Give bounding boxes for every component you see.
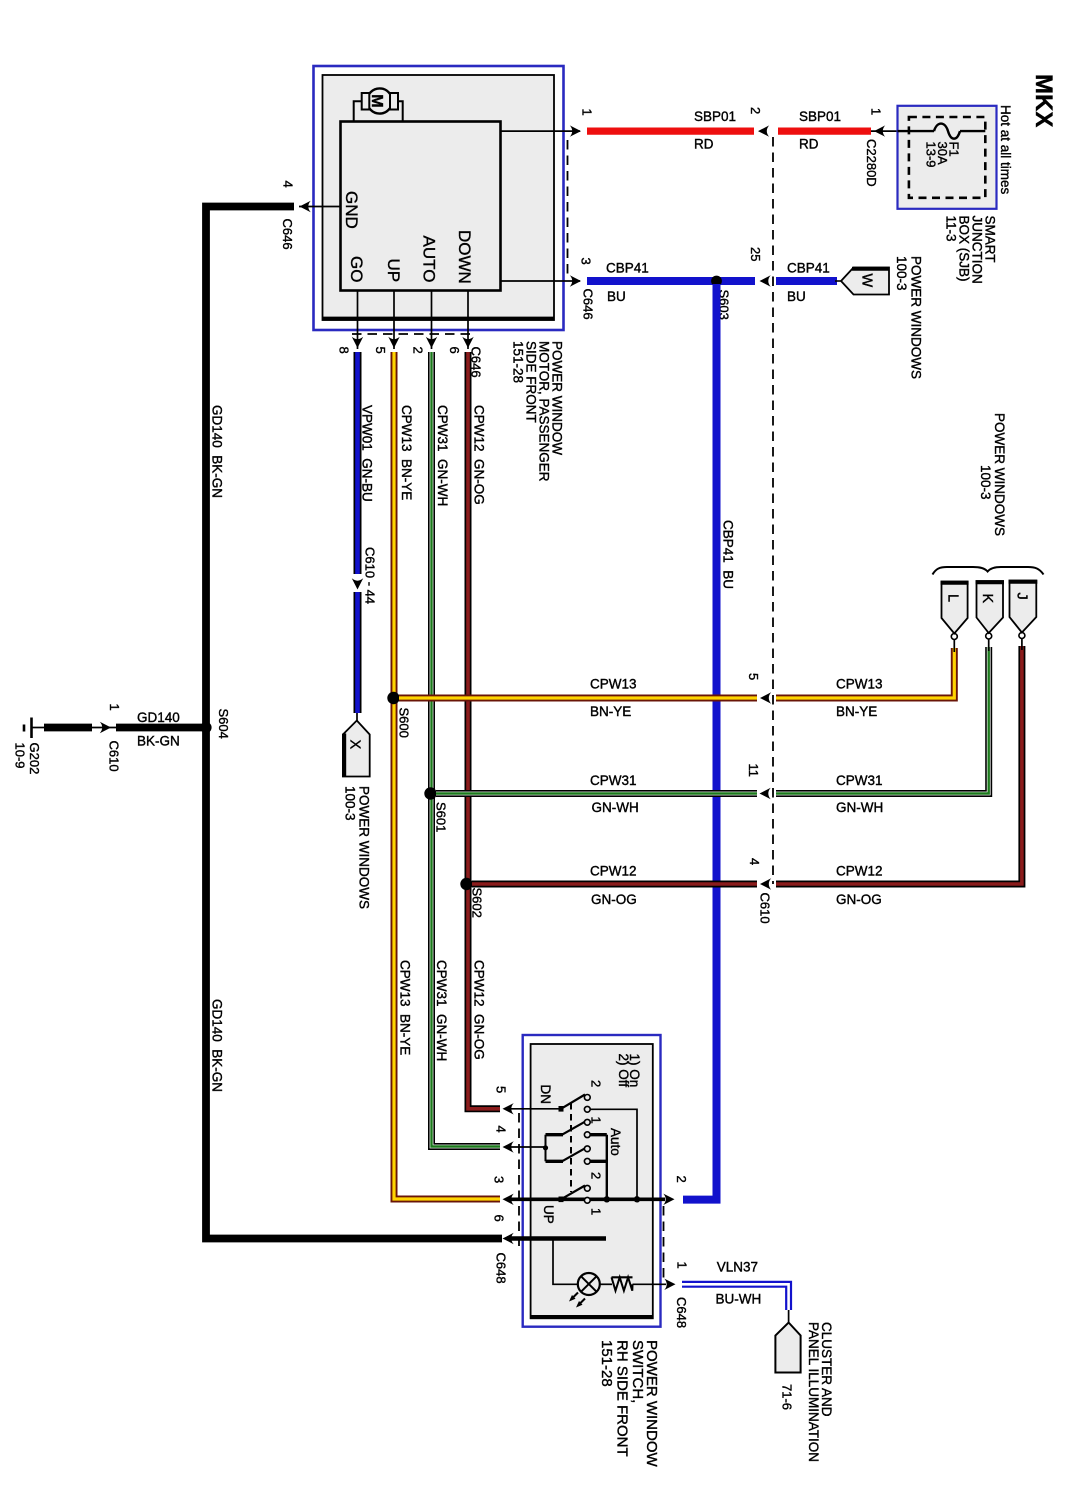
arrow pin 11 (C610) xyxy=(760,788,771,799)
auto bus vertical xyxy=(606,1135,608,1200)
pin6 internal line xyxy=(507,1236,606,1241)
svg-text:C648: C648 xyxy=(674,1297,689,1328)
switch box outer blue xyxy=(523,1035,661,1327)
wire CPW13 BN-YE vertical run xyxy=(394,352,500,1199)
svg-text:CPW31 GN-WH: CPW31 GN-WH xyxy=(435,405,450,506)
svg-text:100-3: 100-3 xyxy=(978,465,993,500)
lamp rays xyxy=(571,1293,578,1300)
switch pin 6 arrow xyxy=(503,1233,514,1244)
svg-text:5: 5 xyxy=(494,1086,509,1093)
svg-text:C2280D: C2280D xyxy=(864,139,879,187)
mechanical linkage dashed xyxy=(570,1103,572,1192)
svg-text:POWER WINDOWS: POWER WINDOWS xyxy=(357,786,372,909)
svg-text:13-9: 13-9 xyxy=(924,142,939,168)
svg-text:CBP41: CBP41 xyxy=(606,261,649,276)
svg-text:CBP41: CBP41 xyxy=(787,261,830,276)
svg-text:GO: GO xyxy=(347,256,366,282)
illumination lamp xyxy=(578,1273,600,1295)
svg-text:4: 4 xyxy=(494,1126,509,1133)
motor symbol M xyxy=(367,88,392,113)
svg-text:CPW12 GN-OG: CPW12 GN-OG xyxy=(472,960,487,1060)
motor U1: power window motor passenger side front - outer blue box xyxy=(314,66,564,330)
wire CBP41 BU segment 1 xyxy=(587,277,755,285)
svg-text:GD140 BK-GN: GD140 BK-GN xyxy=(210,405,225,498)
svg-text:RD: RD xyxy=(694,137,714,152)
svg-text:SBP01: SBP01 xyxy=(694,109,736,124)
wire: GND pin4 lead xyxy=(299,206,341,208)
svg-text:L: L xyxy=(945,594,961,602)
switch pin 3 arrow xyxy=(503,1194,514,1205)
svg-text:MKX: MKX xyxy=(1030,74,1057,127)
svg-text:CPW13 BN-YE: CPW13 BN-YE xyxy=(398,960,413,1055)
connector dashed boundary C2280D / C610 xyxy=(772,137,774,884)
svg-text:S601: S601 xyxy=(434,802,449,832)
svg-text:GD140: GD140 xyxy=(137,710,180,725)
connector flag K lead xyxy=(986,633,992,639)
svg-text:UP: UP xyxy=(384,259,403,283)
ground branch wire GD140 xyxy=(116,724,206,732)
svg-text:G202: G202 xyxy=(27,743,42,775)
connector C648 dashed boundary (left) xyxy=(518,1113,520,1246)
svg-text:151-28: 151-28 xyxy=(598,1340,615,1387)
illumination resistor xyxy=(612,1276,633,1278)
svg-text:CPW13: CPW13 xyxy=(590,677,637,692)
wire CBP41 BU segment 2 xyxy=(776,277,837,285)
svg-text:S604: S604 xyxy=(216,709,231,739)
auto lower contacts xyxy=(584,1146,590,1152)
motor pin 2 lead xyxy=(431,291,433,350)
wire CPW31 GN-WH vertical run xyxy=(432,352,501,1147)
motor pin 3 lead xyxy=(501,280,581,282)
svg-text:1: 1 xyxy=(675,1262,690,1269)
svg-text:GN-OG: GN-OG xyxy=(591,892,637,907)
switch main output line xyxy=(507,1198,665,1202)
switch pin 4 arrow xyxy=(503,1141,514,1152)
svg-text:POWER WINDOWS: POWER WINDOWS xyxy=(909,256,924,379)
wire SBP01 RD segment 2 xyxy=(778,128,871,135)
svg-text:11: 11 xyxy=(746,764,761,778)
svg-text:CPW12: CPW12 xyxy=(590,864,637,879)
svg-text:GN-WH: GN-WH xyxy=(592,800,639,815)
svg-text:SBP01: SBP01 xyxy=(799,109,841,124)
svg-text:151-28: 151-28 xyxy=(511,341,526,383)
svg-text:M: M xyxy=(368,94,385,107)
arrow pin 25 xyxy=(760,275,771,286)
switch internal: pin4 line xyxy=(507,1146,546,1148)
svg-text:C646: C646 xyxy=(280,219,295,250)
wire VLN37 BU-WH xyxy=(682,1284,789,1310)
svg-text:C610: C610 xyxy=(107,741,122,772)
brace over connectors xyxy=(933,567,1044,575)
svg-text:CBP41 BU: CBP41 BU xyxy=(721,520,736,589)
svg-text:5: 5 xyxy=(746,673,761,680)
connector flag W xyxy=(835,280,842,282)
svg-text:6: 6 xyxy=(492,1215,507,1222)
wire VPW01 GN-BU segment 2 xyxy=(354,592,362,713)
svg-text:11-3: 11-3 xyxy=(944,216,959,242)
switch internal: pin5 line to DN switch xyxy=(507,1108,562,1110)
svg-text:Hot at all times: Hot at all times xyxy=(998,105,1013,195)
svg-text:100-3: 100-3 xyxy=(894,256,909,291)
motor lead wires xyxy=(354,101,362,122)
svg-text:SWITCH,: SWITCH, xyxy=(629,1340,646,1403)
svg-text:4: 4 xyxy=(281,181,296,188)
switch box inner grey xyxy=(531,1044,653,1318)
connector C648 dashed boundary (right) xyxy=(663,1206,665,1280)
wire CPW13 BN-YE horizontal run (left) xyxy=(399,695,757,702)
resistor to pin1 line xyxy=(633,1283,667,1285)
lamp to resistor line xyxy=(600,1283,612,1285)
svg-text:1: 1 xyxy=(589,1208,604,1215)
svg-text:2: 2 xyxy=(589,1080,604,1087)
svg-text:3: 3 xyxy=(492,1176,507,1183)
splice S602 xyxy=(460,878,472,890)
svg-text:CPW12 GN-OG: CPW12 GN-OG xyxy=(472,405,487,505)
connector C646 dashed boundary (bottom of motor) xyxy=(352,333,472,335)
connector flag K xyxy=(977,581,1004,633)
splice S600 xyxy=(387,692,399,704)
wire CPW12 GN-OG vertical run xyxy=(468,352,500,1109)
svg-text:C646: C646 xyxy=(581,289,596,320)
svg-text:2: 2 xyxy=(411,347,426,354)
svg-text:K: K xyxy=(979,594,995,604)
motor pin 5 lead xyxy=(393,291,395,350)
pin 3 arrow (C646) xyxy=(570,275,581,286)
svg-text:PANEL ILLUMINATION: PANEL ILLUMINATION xyxy=(806,1322,821,1462)
svg-text:BU: BU xyxy=(787,289,806,304)
svg-text:CPW12: CPW12 xyxy=(836,864,883,879)
svg-text:10-9: 10-9 xyxy=(13,743,28,769)
svg-text:S600: S600 xyxy=(397,708,412,738)
UP contacts xyxy=(584,1185,590,1191)
pin 1 arrow (C646) xyxy=(570,125,581,136)
connector flag cluster xyxy=(775,1323,800,1373)
svg-text:POWER WINDOWS: POWER WINDOWS xyxy=(992,413,1007,536)
svg-text:W: W xyxy=(859,274,875,288)
svg-text:Auto: Auto xyxy=(608,1128,623,1156)
svg-text:6: 6 xyxy=(447,347,462,354)
svg-text:C610: C610 xyxy=(758,893,773,924)
svg-text:GN-OG: GN-OG xyxy=(836,892,882,907)
inline connector C610-44 arrow xyxy=(352,578,363,589)
svg-text:71-6: 71-6 xyxy=(780,1384,795,1410)
svg-text:J: J xyxy=(1013,593,1029,600)
auto upper contacts xyxy=(584,1119,590,1125)
UP switch pole xyxy=(559,1197,564,1203)
wire GD140 BK-GN thick ground wire xyxy=(206,207,502,1239)
svg-text:C648: C648 xyxy=(494,1253,509,1284)
svg-text:BK-GN: BK-GN xyxy=(137,734,180,749)
connector flag L lead xyxy=(951,634,957,640)
svg-text:S602: S602 xyxy=(470,888,485,918)
motor pin 1 lead xyxy=(501,130,581,132)
wire VPW01 GN-BU segment 1 xyxy=(354,352,362,574)
splice S604 xyxy=(200,722,211,733)
pin 2 arrow (right) xyxy=(663,1194,674,1205)
svg-text:3: 3 xyxy=(579,258,594,265)
svg-text:C610 - 44: C610 - 44 xyxy=(363,547,378,604)
connector flag J lead xyxy=(1019,633,1025,639)
arrow pin 5 (C610) xyxy=(760,692,771,703)
lamp feed line xyxy=(553,1239,578,1285)
motor U1 inner grey housing xyxy=(323,75,555,320)
wire SBP01 RD segment 1 xyxy=(587,128,754,135)
svg-text:2: 2 xyxy=(589,1172,604,1179)
switch DN lever xyxy=(561,1095,585,1109)
fuse box dashed outline xyxy=(909,117,985,198)
splice S601 xyxy=(424,787,436,799)
DN contact 2 xyxy=(584,1095,590,1101)
svg-text:5: 5 xyxy=(373,347,388,354)
DN contact 1 wire to bus xyxy=(591,1109,638,1199)
svg-text:UP: UP xyxy=(541,1205,556,1224)
svg-text:GD140 BK-GN: GD140 BK-GN xyxy=(210,999,225,1092)
svg-text:CPW31: CPW31 xyxy=(836,773,883,788)
ground branch arrow pin 1 C610 xyxy=(100,722,111,733)
svg-text:100-3: 100-3 xyxy=(343,786,358,821)
svg-text:GN-WH: GN-WH xyxy=(836,800,883,815)
motor U1 main component box xyxy=(341,122,501,291)
connector flag L xyxy=(942,582,968,634)
svg-text:25: 25 xyxy=(748,247,763,261)
pin 4 arrow xyxy=(300,201,311,212)
svg-text:GND: GND xyxy=(342,191,361,229)
wire CPW31 GN-WH horizontal run (left) xyxy=(436,790,757,797)
motor pin 8 lead xyxy=(357,291,359,350)
svg-text:DOWN: DOWN xyxy=(455,230,474,284)
wire CPW13 BN-YE horizontal run (right) xyxy=(776,648,954,698)
pin 1 arrow (right) xyxy=(664,1279,675,1290)
splice S603 xyxy=(711,276,722,287)
svg-text:2) Off: 2) Off xyxy=(616,1054,631,1088)
connector flag J xyxy=(1010,581,1037,633)
wire CPW31 GN-WH horizontal run (right) xyxy=(776,647,989,794)
wire CBP41 BU vertical run to switch xyxy=(683,284,717,1200)
svg-text:1: 1 xyxy=(580,109,595,116)
smart junction box SJB xyxy=(898,106,997,209)
wire CPW12 GN-OG horizontal run (right) xyxy=(776,646,1022,884)
svg-text:VPW01 GN-BU: VPW01 GN-BU xyxy=(360,405,375,502)
motor pin 6 lead xyxy=(467,291,469,350)
svg-text:DN: DN xyxy=(538,1085,553,1105)
svg-text:CPW31 GN-WH: CPW31 GN-WH xyxy=(434,960,449,1061)
svg-text:2: 2 xyxy=(674,1176,689,1183)
ground symbol G202 xyxy=(30,718,33,739)
arrow pin 4 (C610) xyxy=(760,878,771,889)
svg-text:BN-YE: BN-YE xyxy=(836,704,877,719)
arrow pin 1 SJB xyxy=(871,130,898,132)
svg-text:RD: RD xyxy=(799,137,819,152)
connector flag X xyxy=(343,721,370,777)
auto switch lower pole xyxy=(546,1160,564,1163)
switch pin 5 arrow xyxy=(503,1103,514,1114)
connector C646 dashed boundary (right) xyxy=(567,140,569,278)
svg-text:AUTO: AUTO xyxy=(419,236,438,283)
svg-text:CPW13 BN-YE: CPW13 BN-YE xyxy=(399,405,414,500)
svg-text:X: X xyxy=(347,740,363,750)
svg-text:VLN37: VLN37 xyxy=(717,1260,758,1275)
svg-text:2: 2 xyxy=(748,107,763,114)
svg-text:4: 4 xyxy=(747,858,762,865)
svg-text:8: 8 xyxy=(337,347,352,354)
auto switch upper pole xyxy=(546,1133,564,1136)
svg-text:CPW13: CPW13 xyxy=(836,677,883,692)
svg-text:1: 1 xyxy=(869,108,884,115)
wire CPW12 GN-OG horizontal run (left) xyxy=(472,881,757,888)
svg-text:BN-YE: BN-YE xyxy=(590,704,631,719)
svg-text:1: 1 xyxy=(107,704,122,711)
svg-text:CPW31: CPW31 xyxy=(590,773,637,788)
DN contact 1 xyxy=(584,1106,590,1112)
svg-text:BU: BU xyxy=(607,289,626,304)
fuse F1 element xyxy=(898,130,935,132)
svg-text:BU-WH: BU-WH xyxy=(716,1292,762,1307)
connector arrow pin 2 xyxy=(758,125,769,136)
svg-text:RH SIDE FRONT: RH SIDE FRONT xyxy=(614,1340,631,1457)
